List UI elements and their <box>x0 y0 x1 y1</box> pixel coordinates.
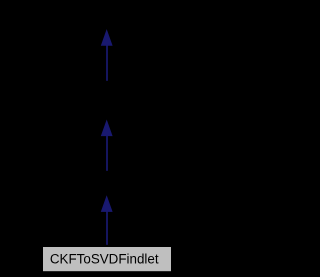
inheritance diagram for CKFToSVDFindlet <box>0 0 213 277</box>
node: arrow 3 head <box>102 197 112 212</box>
wire: arrow 2 stem (to CompositeProcessingSignalListener) <box>106 135 108 171</box>
svg-text:CKFToSVDFindlet: CKFToSVDFindlet <box>50 252 159 267</box>
wire: arrow 1 stem (to ProcessingSignalListener) <box>106 45 108 81</box>
node: arrow 2 head <box>102 121 112 136</box>
node box CKFToSVDFindlet <box>43 247 172 272</box>
node: arrow 1 head <box>102 31 112 46</box>
wire: arrow 3 stem (to Findlet template base) <box>106 211 108 245</box>
